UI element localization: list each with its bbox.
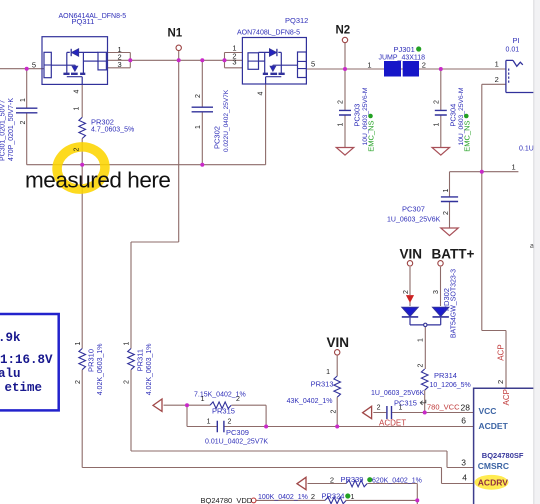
svg-text:PR313: PR313 [311,380,334,389]
svg-text:1: 1 [367,60,371,69]
svg-text:VCC: VCC [479,406,497,416]
svg-text:4: 4 [257,92,264,96]
svg-text:1: 1 [433,123,440,127]
svg-text:ACDET: ACDET [379,418,406,427]
svg-text:1: 1 [495,59,499,68]
svg-text:2: 2 [338,100,345,104]
svg-text:780_VCC: 780_VCC [427,403,460,412]
svg-text:2: 2 [311,492,315,501]
svg-text:2: 2 [418,364,425,368]
svg-text:PR339: PR339 [341,475,364,484]
svg-text:alu: alu [0,367,21,381]
svg-text:PQ311: PQ311 [72,17,95,26]
svg-text:1: 1 [124,342,131,346]
svg-text:1: 1 [443,189,450,193]
svg-text:BQ24780_VDD: BQ24780_VDD [201,496,253,504]
svg-text:1U_0603_25V6K: 1U_0603_25V6K [371,390,425,397]
svg-text:1U_0603_25V6K: 1U_0603_25V6K [387,217,441,224]
svg-text:2: 2 [433,100,440,104]
svg-text:PC301_0201_50V7: PC301_0201_50V7 [0,100,7,161]
svg-text:2: 2 [403,290,410,294]
svg-text:1: 1 [201,396,205,403]
svg-text:1: 1 [338,123,345,127]
svg-text:PQ312: PQ312 [285,16,308,25]
svg-text:CMSRC: CMSRC [478,461,509,471]
svg-text:PC304: PC304 [448,104,457,127]
svg-text:1: 1 [74,107,81,111]
svg-text:VIN: VIN [400,246,423,261]
svg-text:6: 6 [461,416,466,426]
svg-text:JUMP_43X118: JUMP_43X118 [379,55,426,62]
svg-text:PR311: PR311 [136,349,145,371]
svg-text:1: 1 [418,338,425,342]
svg-text:4: 4 [462,473,467,483]
svg-text:1: 1 [512,162,516,171]
svg-text:PR314: PR314 [434,371,457,380]
svg-text:PC309: PC309 [226,428,249,437]
svg-text:4: 4 [74,90,81,94]
svg-text:2: 2 [236,396,240,403]
svg-text:4.7_0603_5%: 4.7_0603_5% [91,126,134,133]
svg-text:1: 1 [20,98,27,102]
svg-text:ACP: ACP [497,344,506,360]
svg-text:43K_0402_1%: 43K_0402_1% [287,398,333,405]
svg-text:N2: N2 [336,25,351,37]
svg-text:PC303: PC303 [353,104,362,127]
svg-text:100K_0402_1%: 100K_0402_1% [258,494,308,501]
svg-text:2: 2 [20,121,27,125]
svg-text:PC315: PC315 [394,399,417,408]
svg-text:PC307: PC307 [402,205,425,214]
svg-text:PJ301: PJ301 [394,45,415,54]
svg-text:PR310: PR310 [87,349,96,372]
svg-text:4.02K_0603_1%: 4.02K_0603_1% [146,344,153,396]
svg-text:3: 3 [461,458,466,468]
svg-text:3: 3 [118,60,122,69]
svg-text:PR324: PR324 [322,492,345,501]
svg-text:BQ24780SF: BQ24780SF [482,451,524,460]
svg-text:0.01: 0.01 [506,47,520,54]
svg-text:2: 2 [377,405,381,412]
svg-text:2: 2 [195,94,202,98]
svg-text:2: 2 [124,380,131,384]
svg-text:ACP: ACP [502,389,511,405]
svg-text:3: 3 [232,58,236,67]
svg-text:0.022U_0402_25V7K: 0.022U_0402_25V7K [223,89,230,152]
svg-text:620K_0402_1%: 620K_0402_1% [372,478,422,485]
svg-text:2: 2 [228,419,232,426]
svg-text:2: 2 [75,380,82,384]
svg-text:1: 1 [75,342,82,346]
svg-text:470P_0201_50V7-K: 470P_0201_50V7-K [8,98,15,161]
svg-text:ACDET: ACDET [479,421,509,431]
svg-text:2: 2 [331,410,338,414]
svg-text:1: 1 [195,125,202,129]
svg-text:PC302: PC302 [213,126,222,149]
svg-text:ACDRV: ACDRV [478,478,508,488]
svg-text:2: 2 [330,475,334,484]
svg-text:1: 1 [351,494,355,501]
svg-text:2: 2 [74,148,81,152]
svg-text:2: 2 [496,380,505,384]
svg-text:etime: etime [4,381,42,395]
svg-text:PI: PI [513,36,520,45]
svg-text:5: 5 [32,60,36,69]
svg-text:EMC_NS: EMC_NS [367,121,376,152]
svg-text:N1: N1 [168,27,183,39]
svg-text:1: 1 [326,369,330,376]
svg-text:EMC_NS: EMC_NS [462,121,471,152]
svg-text:BATT+: BATT+ [432,246,475,261]
svg-text:2: 2 [422,60,426,69]
svg-text:2: 2 [495,75,499,84]
svg-text:PR302: PR302 [91,118,114,127]
svg-text:5: 5 [311,60,315,69]
svg-text:1: 1 [399,405,403,412]
svg-text:measured here: measured here [25,168,171,193]
svg-text:1: 1 [207,419,211,426]
svg-text:10_1206_5%: 10_1206_5% [430,382,471,389]
svg-text:2: 2 [443,211,450,215]
svg-text:28: 28 [461,402,471,412]
svg-text:1:16.8V: 1:16.8V [0,353,53,367]
svg-text:0.01U_0402_25V7K: 0.01U_0402_25V7K [205,439,268,446]
svg-text:BAT54GW_SOT323-3: BAT54GW_SOT323-3 [451,269,458,338]
svg-text:AON7408L_DFN8-5: AON7408L_DFN8-5 [237,30,300,37]
svg-text:3.9k: 3.9k [0,331,21,345]
svg-text:PR315: PR315 [212,407,235,416]
svg-text:VIN: VIN [327,335,350,350]
svg-text:4.02K_0603_1%: 4.02K_0603_1% [97,344,104,396]
svg-text:3: 3 [433,290,440,294]
